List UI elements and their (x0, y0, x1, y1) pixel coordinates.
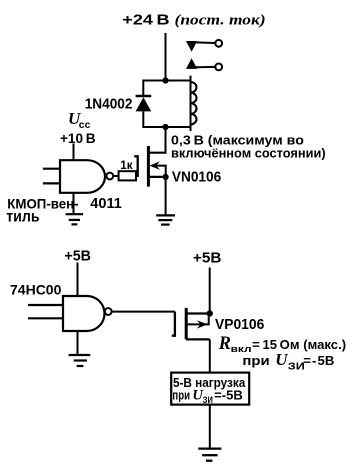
wire Ucc to gate top (73, 144, 75, 161)
transistor Q2 channel bar (185, 308, 188, 340)
wire MOSFET source to ground (165, 177, 167, 215)
transistor Q2 body arrowhead (197, 320, 208, 328)
transistor Q1 channel bar (147, 146, 150, 187)
node: source junction dot (163, 174, 169, 180)
svg-text:1к: 1к (120, 158, 133, 172)
svg-text:0,3 В (максимум во: 0,3 В (максимум во (171, 133, 304, 147)
wire gate bottom to ground (73, 193, 75, 214)
relay contact arrow lower (movable, pointing up) (186, 58, 197, 69)
label +24 V supply (122, 11, 265, 28)
wire from +24V label down to rail node (165, 33, 167, 81)
svg-text:VP0106: VP0106 (215, 317, 264, 333)
svg-text:+10 В: +10 В (60, 130, 96, 146)
wire drain to load box (209, 339, 211, 372)
svg-text:VN0106: VN0106 (172, 169, 221, 185)
svg-text:+5В: +5В (64, 248, 91, 264)
svg-text:включённом состоянии): включённом состоянии) (171, 147, 326, 161)
node: +24V rail junction (162, 77, 168, 83)
transistor Q1 body arrow shaft (156, 166, 166, 177)
wire: diode branch lower lead (142, 111, 144, 128)
wire input stub 1 (43, 168, 60, 170)
wire load box to ground (209, 405, 211, 449)
wire from lower contact to terminal (192, 66, 216, 69)
wire +5V down to source junction (209, 268, 211, 314)
transistor Q1 VN0106 gate plate (134, 156, 138, 177)
diode D1 1N4002 (triangle) (136, 97, 152, 111)
transistor Q2 body arrow shaft (186, 317, 209, 325)
ground (load) (198, 449, 221, 461)
load box (171, 373, 249, 405)
svg-text:тиль: тиль (6, 209, 39, 226)
relay terminal circle lower (215, 64, 222, 71)
ground (4011) (66, 214, 84, 224)
nand gate U2 74HC00 body (63, 296, 105, 331)
transistor Q1 source stub (148, 176, 165, 178)
wire resistor to gate (136, 175, 138, 177)
ground (74HC00) (69, 355, 91, 366)
wire input stub 2 (43, 182, 60, 184)
relay coil L1 loops (191, 82, 197, 124)
transistor Q2 source stub top (186, 312, 210, 314)
wire from upper contact to terminal (192, 41, 216, 44)
relay terminal circle upper (215, 40, 222, 47)
svg-text:+24 В (пост. ток): +24 В (пост. ток) (122, 11, 265, 28)
wire +5V to gate top (77, 263, 79, 297)
wire: diode branch upper lead (142, 80, 144, 97)
wire input stub 2 (28, 317, 63, 319)
wire: drain lead down (165, 127, 167, 153)
node: drain rail junction (162, 124, 168, 130)
transistor Q2 VP0106 gate plate (172, 312, 175, 336)
wire NAND output to VP0106 gate (112, 311, 175, 313)
transistor Q2 drain stub bottom (186, 338, 210, 340)
relay contact arrow upper (movable, pointing down) (186, 41, 197, 52)
svg-text:4011: 4011 (90, 195, 122, 212)
diode D1 1N4002 (cathode bar) (136, 95, 152, 98)
node: VP0106 source junction (207, 310, 213, 316)
nand gate U1 4011 body (60, 160, 105, 193)
relay coil L1 vertical lead (190, 76, 192, 131)
wire bubble to resistor (113, 175, 118, 177)
wire gate bottom to ground (77, 331, 79, 355)
nand gate U1 output bubble (106, 173, 113, 180)
ground (VN0106 source) (156, 215, 175, 224)
svg-text:1N4002: 1N4002 (85, 96, 133, 113)
transistor Q1 body arrowhead (149, 161, 160, 169)
wire: top rail (143, 80, 190, 82)
resistor R1 1k body (119, 171, 136, 180)
wire input stub 1 (28, 304, 63, 306)
svg-text:74HC00: 74HC00 (10, 282, 62, 298)
nand gate U2 output bubble (105, 308, 112, 315)
svg-text:+5В: +5В (193, 250, 222, 266)
transistor Q1 drain stub (148, 152, 166, 154)
wire: bottom rail (143, 126, 190, 128)
